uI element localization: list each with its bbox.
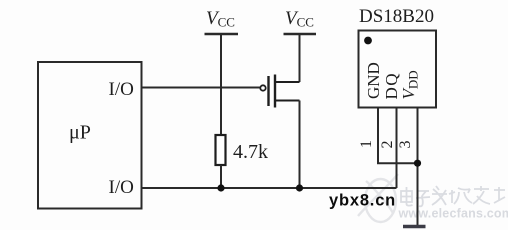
source lead: [275, 100, 300, 102]
svg-text:GND: GND: [364, 62, 383, 99]
wire: MOSFET source down to DQ line: [299, 101, 301, 189]
wire: top I/O to MOSFET gate: [142, 87, 261, 89]
DS18B20 body U1: [359, 31, 437, 108]
svg-text:μP: μP: [69, 122, 91, 144]
pin 1 lead: [378, 108, 418, 164]
watermark chinese brush text 电子发烧友: [401, 186, 505, 206]
svg-text:VCC: VCC: [285, 8, 314, 30]
pin 3 lead: [417, 108, 419, 226]
power VCC 1: [205, 8, 239, 135]
svg-text:I/O: I/O: [109, 177, 134, 198]
gate bubble: [260, 85, 265, 90]
pin-1 marker dot: [364, 37, 372, 45]
svg-text:2: 2: [379, 141, 396, 149]
svg-text:3: 3: [397, 141, 414, 149]
svg-text:www.elecfans.com: www.elecfans.com: [398, 207, 508, 221]
svg-text:I/O: I/O: [109, 79, 134, 100]
gate plate: [267, 76, 269, 106]
junction dot pin1/pin3: [414, 160, 421, 167]
wire: bottom DQ line: [142, 187, 397, 189]
ground: [403, 225, 426, 228]
svg-text:DS18B20: DS18B20: [359, 6, 434, 27]
pin 2 lead: [396, 108, 398, 189]
drain lead: [275, 81, 300, 83]
svg-text:VCC: VCC: [206, 8, 235, 30]
channel plate: [274, 75, 276, 108]
junction dot at resistor/DQ: [217, 184, 224, 191]
transistor Q1 (P-MOSFET): [260, 75, 299, 108]
wire: resistor to DQ line: [220, 165, 222, 188]
resistor R 4.7k: [216, 135, 226, 165]
power VCC 2: [284, 8, 317, 82]
svg-text:4.7k: 4.7k: [233, 141, 268, 163]
svg-text:1: 1: [358, 140, 375, 148]
svg-text:VDD: VDD: [399, 70, 421, 99]
watermark logo swoosh: [358, 174, 398, 222]
svg-text:ybx8.cn: ybx8.cn: [329, 192, 396, 210]
junction dot at MOSFET/DQ: [296, 184, 303, 191]
microprocessor box μP: [38, 62, 142, 209]
